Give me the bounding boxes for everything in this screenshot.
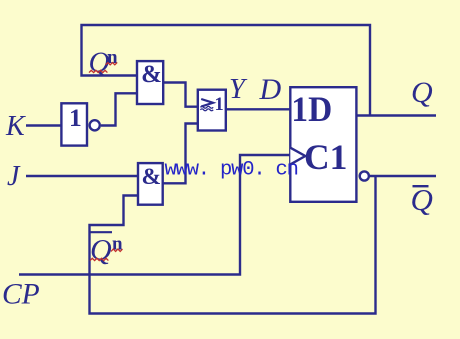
svg-text:D: D [259, 73, 282, 106]
svg-text:CP: CP [2, 279, 40, 311]
svg-text:1D: 1D [291, 90, 332, 129]
svg-text:1: 1 [69, 103, 82, 132]
svg-text:n: n [112, 234, 123, 255]
svg-text:&: & [141, 61, 162, 88]
svg-text:n: n [107, 47, 118, 68]
svg-text:Q: Q [411, 76, 433, 109]
svg-text:Q: Q [90, 234, 112, 267]
svg-text:&: & [142, 164, 162, 190]
svg-text:K: K [5, 111, 26, 142]
svg-text:1: 1 [215, 95, 224, 115]
svg-text:J: J [7, 161, 21, 192]
svg-text:C1: C1 [304, 137, 347, 177]
svg-text:www. pw0. cn: www. pw0. cn [165, 159, 298, 182]
